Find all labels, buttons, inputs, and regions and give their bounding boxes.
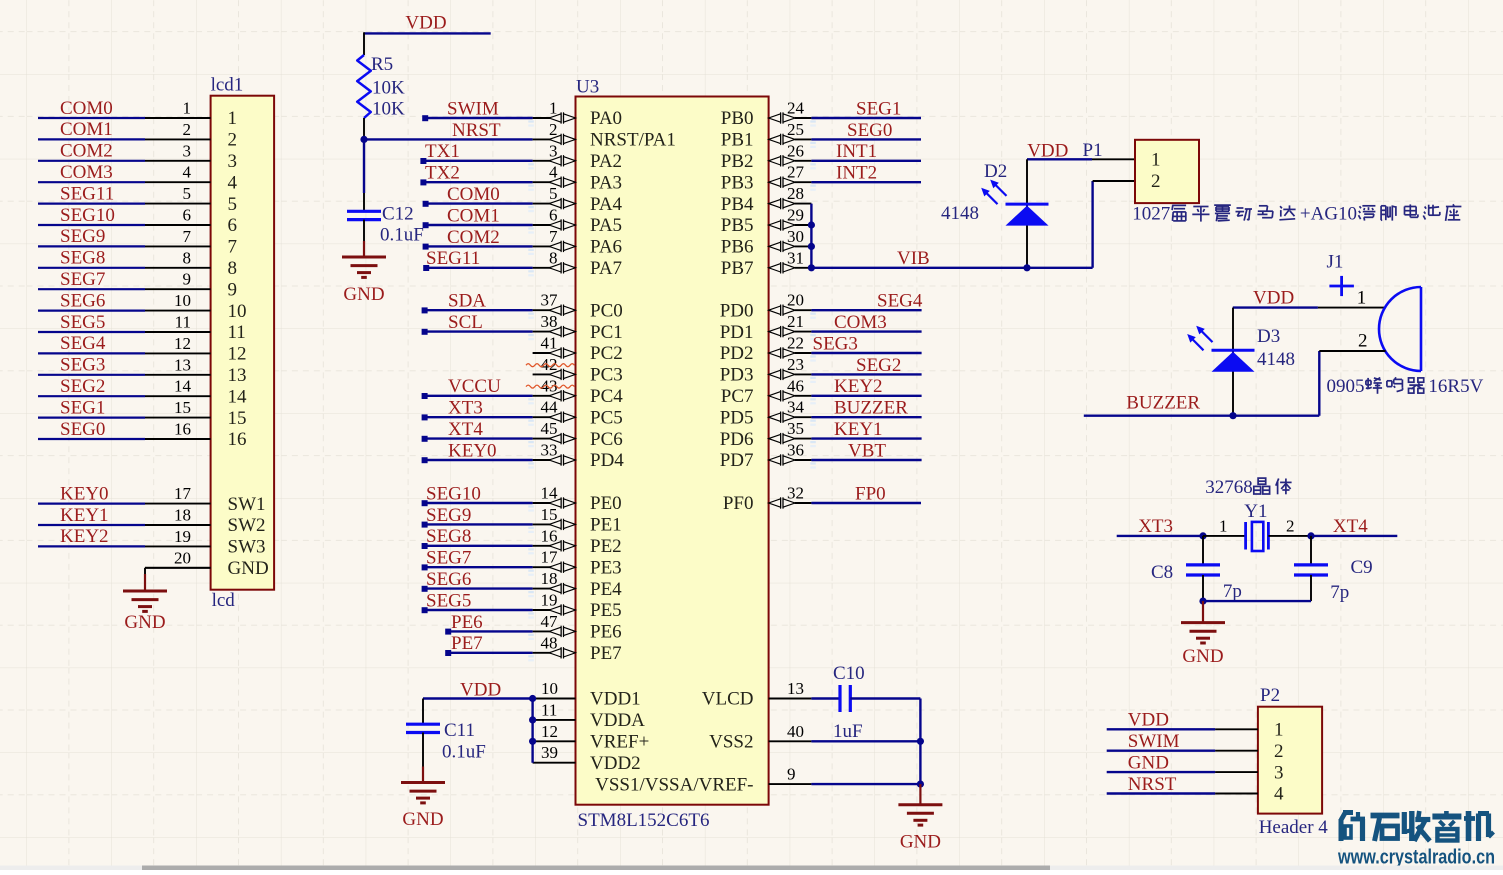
U3 pin 47 (PE6)	[533, 612, 622, 643]
wire net KEY2 to lcd1 pin 19	[38, 545, 145, 547]
junction VSS1 rail	[917, 781, 924, 788]
net label SEG11	[426, 248, 480, 269]
svg-text:PB6: PB6	[721, 237, 754, 258]
svg-text:PB1: PB1	[721, 130, 754, 151]
svg-text:2: 2	[549, 120, 558, 139]
svg-text:INT2: INT2	[836, 163, 877, 184]
net label SWIM at P2	[1128, 731, 1180, 752]
svg-text:0905: 0905	[1327, 376, 1365, 397]
U3 pin 9 (VSS1/VSSA/VREF-)	[595, 765, 811, 796]
P2 pin 1	[1215, 720, 1283, 741]
browser scrollbar thumb	[142, 866, 1050, 871]
svg-text:PD4: PD4	[590, 450, 624, 471]
lcd1 pin 16 (16)	[145, 420, 247, 451]
net label INT1	[836, 141, 877, 162]
svg-text:PA0: PA0	[590, 108, 622, 129]
svg-text:SEG3: SEG3	[60, 355, 105, 376]
svg-text:4148: 4148	[1257, 349, 1295, 370]
svg-text:COM1: COM1	[60, 119, 113, 140]
svg-text:8: 8	[549, 248, 558, 267]
svg-text:SEG7: SEG7	[426, 548, 471, 569]
wire net COM2 to U3 pin 7	[423, 244, 534, 255]
svg-text:SEG4: SEG4	[877, 291, 923, 312]
svg-text:13: 13	[787, 679, 804, 698]
svg-text:4: 4	[549, 163, 558, 182]
svg-text:14: 14	[228, 386, 248, 407]
svg-text:10K: 10K	[372, 78, 405, 99]
svg-text:COM1: COM1	[447, 205, 500, 226]
U3 pin 41 (PC2)	[533, 334, 623, 365]
svg-text:1: 1	[1151, 150, 1161, 171]
net label COM3	[834, 312, 887, 333]
svg-text:SEG0: SEG0	[60, 419, 105, 440]
wire net SEG9 to lcd1 pin 7	[38, 245, 145, 247]
wire net SEG6 to lcd1 pin 10	[38, 310, 145, 312]
svg-text:PF0: PF0	[723, 493, 754, 514]
wire net SEG10 to U3 pin 14	[422, 500, 534, 511]
svg-text:lcd: lcd	[212, 590, 236, 611]
svg-text:COM0: COM0	[60, 98, 113, 119]
ground symbol GND at lcd1	[123, 574, 167, 633]
svg-text:14: 14	[541, 484, 559, 503]
svg-text:21: 21	[787, 312, 804, 331]
svg-text:18: 18	[541, 569, 558, 588]
net label COM2	[447, 227, 500, 248]
U3 pin 3 (PA2)	[533, 141, 622, 172]
svg-text:SEG2: SEG2	[856, 355, 901, 376]
net label XT3	[448, 398, 483, 419]
net label SEG0	[60, 419, 105, 440]
U3 pin 46 (PC7)	[721, 376, 812, 407]
wire net KEY1 from U3 pin 35	[810, 439, 921, 448]
wire net VDD to P2 pin 1	[1107, 728, 1215, 730]
svg-text:VBT: VBT	[848, 440, 886, 461]
svg-text:SWIM: SWIM	[1128, 731, 1180, 752]
svg-text:10: 10	[541, 679, 558, 698]
svg-text:33: 33	[541, 441, 558, 460]
power net VDD label at U3 supply	[460, 679, 501, 700]
wire net VBT from U3 pin 36	[810, 460, 921, 469]
wire net TX2 to U3 pin 4	[420, 179, 533, 190]
svg-text:PB4: PB4	[721, 194, 754, 215]
svg-text:GND: GND	[900, 832, 941, 853]
svg-text:19: 19	[174, 527, 191, 546]
U3 pin 40 (VSS2)	[709, 722, 811, 753]
wire net SEG0 to lcd1 pin 16	[38, 438, 145, 440]
ground symbol GND below C12	[342, 241, 386, 305]
capacitor C8 7p	[1151, 536, 1242, 602]
net label SEG4	[60, 333, 106, 354]
svg-text:PD2: PD2	[720, 343, 754, 364]
svg-text:PC2: PC2	[590, 343, 623, 364]
junction node at R5/C12/NRST	[360, 136, 367, 143]
wire net INT1 from U3 pin 26	[810, 161, 921, 170]
net label XT4	[448, 419, 483, 440]
wire VSS2 to GND rail	[811, 740, 920, 742]
net label SEG4	[877, 291, 923, 312]
svg-text:10: 10	[228, 301, 247, 322]
lcd1 pin 7 (7)	[145, 227, 237, 258]
P2 pin 3	[1215, 762, 1283, 783]
svg-text:6: 6	[549, 206, 558, 225]
lcd1 pin 9 (9)	[145, 270, 237, 301]
svg-text:PA6: PA6	[590, 237, 622, 258]
svg-text:22: 22	[787, 334, 804, 353]
svg-text:NRST/PA1: NRST/PA1	[590, 130, 676, 151]
svg-text:PE0: PE0	[590, 493, 622, 514]
svg-text:C12: C12	[382, 204, 414, 225]
U3 pin 27 (PB3)	[721, 163, 812, 194]
value label 32768 crystal	[1205, 477, 1291, 498]
svg-text:NRST: NRST	[452, 120, 501, 141]
lcd1 pin 11 (11)	[145, 313, 246, 344]
wire C11 to ground	[422, 733, 424, 767]
svg-text:SEG1: SEG1	[856, 98, 901, 119]
svg-text:INT1: INT1	[836, 141, 877, 162]
svg-text:PD3: PD3	[720, 365, 754, 386]
svg-text:KEY0: KEY0	[448, 440, 497, 461]
svg-text:10K: 10K	[372, 99, 405, 120]
value label 1027 vibration motor + AG10 battery holder	[1132, 204, 1461, 225]
net label SEG3	[60, 355, 105, 376]
junction VREF+	[529, 738, 536, 745]
svg-text:2: 2	[183, 120, 192, 139]
P2 pin 2	[1215, 741, 1283, 762]
svg-text:PB7: PB7	[721, 258, 754, 279]
svg-text:9: 9	[228, 279, 238, 300]
wire net SEG11 to lcd1 pin 5	[38, 203, 145, 205]
svg-text:VREF+: VREF+	[590, 732, 649, 753]
svg-text:PC0: PC0	[590, 300, 623, 321]
lcd1 pin 8 (8)	[145, 248, 237, 279]
svg-text:KEY1: KEY1	[60, 505, 109, 526]
svg-text:3: 3	[228, 151, 238, 172]
net label XT4	[1333, 516, 1368, 537]
net label FP0	[855, 483, 886, 504]
lcd1 pin 2 (2)	[145, 120, 237, 151]
net label SDA	[448, 291, 486, 312]
U3 pin 1 (PA0)	[533, 99, 622, 130]
svg-text:SEG8: SEG8	[426, 526, 471, 547]
wire net COM2 to lcd1 pin 3	[38, 160, 145, 162]
wire net SDA to U3 pin 37	[422, 307, 534, 318]
svg-text:XT3: XT3	[1138, 516, 1173, 537]
U3 pin 28 (PB4)	[721, 184, 812, 215]
net label COM1	[60, 119, 113, 140]
net label COM3	[60, 162, 113, 183]
svg-text:PE6: PE6	[590, 622, 622, 643]
svg-text:PE3: PE3	[590, 557, 622, 578]
svg-text:14: 14	[174, 377, 192, 396]
wire net SEG3 to lcd1 pin 13	[38, 374, 145, 376]
svg-text:XT3: XT3	[448, 398, 483, 419]
compile error squiggle pin 43	[526, 385, 574, 388]
wire NRST net to U3 pin 2	[364, 138, 533, 140]
svg-text:16R5V: 16R5V	[1428, 376, 1483, 397]
svg-text:PA4: PA4	[590, 194, 623, 215]
svg-text:12: 12	[228, 344, 247, 365]
net label NRST	[452, 120, 501, 141]
U3 pin 19 (PE5)	[533, 591, 622, 622]
svg-text:C11: C11	[444, 720, 475, 741]
wire net GND to P2 pin 3	[1107, 771, 1215, 773]
svg-text:SEG4: SEG4	[60, 333, 106, 354]
wire net SEG7 to lcd1 pin 9	[38, 288, 145, 290]
wire Y1 pin 2 to XT4	[1268, 517, 1311, 536]
net label INT2	[836, 163, 877, 184]
lcd1 pin 15 (15)	[145, 398, 247, 429]
svg-text:SW3: SW3	[228, 537, 266, 558]
svg-text:6: 6	[183, 206, 192, 225]
svg-text:2: 2	[1358, 331, 1368, 352]
svg-text:VDDA: VDDA	[590, 710, 645, 731]
svg-text:GND: GND	[343, 284, 384, 305]
wire net COM3 to lcd1 pin 4	[38, 181, 145, 183]
wire net SEG11 to U3 pin 8	[423, 265, 534, 276]
wire net NRST to P2 pin 4	[1107, 792, 1215, 794]
svg-text:SEG10: SEG10	[60, 205, 115, 226]
U3 pin 43 (PC4)	[533, 376, 624, 407]
svg-text:15: 15	[228, 408, 247, 429]
svg-text:5: 5	[228, 194, 238, 215]
svg-text:KEY2: KEY2	[60, 526, 109, 547]
U3 pin 37 (PC0)	[533, 291, 623, 322]
net label KEY0	[60, 483, 109, 504]
wire VDD to U3 supply pins	[423, 699, 533, 763]
net label TX1	[425, 141, 460, 162]
svg-text:27: 27	[787, 163, 805, 182]
svg-text:COM2: COM2	[447, 227, 500, 248]
svg-text:25: 25	[787, 120, 804, 139]
svg-text:PE1: PE1	[590, 515, 622, 536]
U3 pin 26 (PB2)	[721, 141, 812, 172]
svg-text:PD0: PD0	[720, 300, 754, 321]
U3 pin 21 (PD1)	[720, 312, 812, 343]
net label SEG9	[60, 226, 105, 247]
svg-text:23: 23	[787, 355, 804, 374]
net label PE7	[451, 633, 483, 654]
wire VDD down through diode D2	[1026, 159, 1028, 267]
svg-text:10: 10	[174, 291, 191, 310]
J1 pin 2 number	[1358, 331, 1368, 352]
polarity plus mark at J1	[1329, 276, 1354, 296]
net label SEG3	[813, 333, 858, 354]
wire net COM3 from U3 pin 21	[810, 332, 921, 341]
svg-text:32: 32	[787, 484, 804, 503]
net label COM2	[60, 141, 113, 162]
wire BUZZER net	[1084, 351, 1386, 416]
lcd1 pin 6 (6)	[145, 206, 237, 237]
net label KEY1	[834, 419, 883, 440]
lcd1 pin 20 (GND)	[145, 548, 269, 579]
svg-text:12: 12	[174, 334, 191, 353]
svg-text:13: 13	[228, 365, 247, 386]
svg-text:PC7: PC7	[721, 386, 754, 407]
svg-text:SEG5: SEG5	[60, 312, 105, 333]
U3 pin 32 (PF0)	[723, 484, 812, 515]
resistor R5	[357, 54, 405, 120]
lcd1 pin 13 (13)	[145, 355, 247, 386]
wire net SEG2 from U3 pin 23	[810, 374, 921, 383]
svg-text:39: 39	[541, 743, 558, 762]
wire net SEG1 to lcd1 pin 15	[38, 417, 145, 419]
svg-text:9: 9	[183, 270, 192, 289]
wire VDD to J1 pin 1	[1233, 306, 1385, 308]
svg-text:3: 3	[549, 141, 558, 160]
wire net VIB from PB7 to D2/P1	[811, 267, 1092, 269]
wire net SWIM to P2 pin 2	[1107, 750, 1215, 752]
svg-text:KEY0: KEY0	[60, 483, 109, 504]
compile error squiggle pin 42	[526, 364, 574, 367]
svg-text:GND: GND	[402, 809, 443, 830]
svg-text:C10: C10	[833, 663, 865, 684]
svg-text:34: 34	[787, 398, 805, 417]
svg-text:D2: D2	[984, 161, 1007, 182]
svg-text:COM0: COM0	[447, 184, 500, 205]
svg-text:SEG2: SEG2	[60, 376, 105, 397]
svg-text:PE6: PE6	[451, 612, 483, 633]
svg-text:2: 2	[1274, 741, 1284, 762]
wire net FP0 from U3 pin 32	[811, 502, 921, 504]
svg-text:1: 1	[183, 99, 192, 118]
U3 pin 45 (PC6)	[533, 419, 623, 450]
svg-text:PA7: PA7	[590, 258, 622, 279]
wire net INT2 from U3 pin 27	[810, 182, 921, 191]
svg-text:SW1: SW1	[228, 494, 266, 515]
wire net SEG9 to U3 pin 15	[422, 522, 534, 533]
lcd1 pin 17 (SW1)	[145, 484, 266, 515]
svg-text:Y1: Y1	[1244, 501, 1267, 522]
power net VDD label at J1	[1253, 287, 1294, 308]
svg-text:PD6: PD6	[720, 429, 754, 450]
wire net PE7 to U3 pin 48	[445, 650, 534, 661]
svg-text:VDD1: VDD1	[590, 689, 641, 710]
svg-text:29: 29	[787, 206, 804, 225]
U3 pin 36 (PD7)	[720, 441, 812, 472]
net label BUZZER	[1126, 393, 1200, 414]
U3 pin 30 (PB6)	[721, 227, 812, 258]
net label SEG2	[60, 376, 105, 397]
wire lcd1 pin 20 to ground	[145, 568, 211, 574]
U3 pin 29 (PB5)	[721, 206, 812, 237]
capacitor C12 0.1uF	[347, 204, 424, 246]
svg-text:SEG8: SEG8	[60, 248, 105, 269]
crystal Y1 designator	[1244, 501, 1267, 522]
watermark logo crystalradio	[1341, 811, 1494, 841]
svg-text:PB0: PB0	[721, 108, 754, 129]
net label KEY2	[60, 526, 109, 547]
junction PB5	[808, 221, 815, 228]
wire net KEY0 to U3 pin 33	[422, 457, 534, 468]
net label SEG7	[426, 548, 471, 569]
wire C10 to GND rail	[850, 699, 920, 785]
svg-text:46: 46	[787, 376, 804, 395]
svg-text:PE4: PE4	[590, 579, 622, 600]
wire XT3 to Y1 pin 1	[1203, 517, 1246, 536]
svg-text:7: 7	[228, 237, 238, 258]
wire net KEY2 from U3 pin 46	[810, 396, 921, 405]
net label VCCU	[448, 376, 501, 397]
U3 pin 10 (VDD1)	[533, 679, 641, 710]
net label BUZZER	[834, 398, 908, 419]
svg-text:R5: R5	[371, 54, 393, 75]
svg-text:BUZZER: BUZZER	[834, 398, 908, 419]
ground symbol GND at U3 supply rail	[898, 784, 942, 852]
svg-text:4: 4	[228, 172, 238, 193]
net label NRST at P2	[1128, 774, 1177, 795]
svg-text:7: 7	[549, 227, 558, 246]
svg-text:GND: GND	[1182, 646, 1223, 667]
svg-text:40: 40	[787, 722, 804, 741]
svg-text:7p: 7p	[1330, 582, 1349, 603]
svg-text:PD5: PD5	[720, 407, 754, 428]
U3 pin 22 (PD2)	[720, 334, 812, 365]
net label COM0	[447, 184, 500, 205]
U3 pin 24 (PB0)	[721, 99, 812, 130]
wire net XT3 to U3 pin 44	[422, 414, 534, 425]
svg-text:1: 1	[549, 99, 558, 118]
svg-text:1: 1	[1219, 517, 1228, 536]
svg-text:www.crystalradio.cn: www.crystalradio.cn	[1337, 847, 1495, 869]
svg-text:1uF: 1uF	[833, 721, 863, 742]
svg-text:SEG11: SEG11	[426, 248, 480, 269]
svg-text:PC4: PC4	[590, 386, 623, 407]
svg-text:J1: J1	[1327, 251, 1344, 272]
U3 pin 4 (PA3)	[533, 163, 622, 194]
svg-text:1027: 1027	[1132, 204, 1170, 225]
U3 pin 5 (PA4)	[533, 184, 623, 215]
net label SEG2	[856, 355, 901, 376]
svg-text:2: 2	[1286, 517, 1295, 536]
svg-text:PE7: PE7	[451, 633, 483, 654]
wire D3 anode down to BUZZER net	[1232, 308, 1234, 416]
wire VSS1 to GND rail	[811, 783, 920, 785]
lcd1 pin 12 (12)	[145, 334, 247, 365]
U3 pin 6 (PA5)	[533, 206, 622, 237]
svg-text:TX2: TX2	[425, 163, 460, 184]
svg-text:SEG0: SEG0	[847, 120, 892, 141]
svg-text:SEG3: SEG3	[813, 333, 858, 354]
svg-text:7: 7	[183, 227, 192, 246]
svg-text:0.1uF: 0.1uF	[380, 225, 424, 246]
U3 pin 17 (PE3)	[533, 548, 622, 579]
svg-text:+AG10: +AG10	[1300, 204, 1357, 225]
U3 pin 44 (PC5)	[533, 398, 623, 429]
svg-text:PB5: PB5	[721, 215, 754, 236]
svg-text:30: 30	[787, 227, 804, 246]
lcd1 pin 5 (5)	[145, 184, 237, 215]
junction BUZZER at D3	[1229, 412, 1236, 419]
svg-text:COM3: COM3	[60, 162, 113, 183]
junction VDD1	[529, 695, 536, 702]
U3 pin 42 (PC3)	[533, 355, 623, 386]
junction XT3	[1199, 532, 1206, 539]
wire VDD horizontal at top	[364, 32, 491, 55]
net label SEG10	[60, 205, 115, 226]
svg-text:P1: P1	[1083, 140, 1103, 161]
svg-text:TX1: TX1	[425, 141, 460, 162]
svg-text:VDD: VDD	[460, 679, 501, 700]
svg-text:SEG7: SEG7	[60, 269, 105, 290]
svg-text:11: 11	[541, 700, 557, 719]
svg-text:VDD: VDD	[405, 12, 446, 33]
U3 pin 12 (VREF+)	[533, 722, 650, 753]
wire net COM0 to U3 pin 5	[423, 201, 534, 212]
capacitor C9 7p	[1294, 536, 1373, 603]
svg-text:PA3: PA3	[590, 172, 622, 193]
svg-text:FP0: FP0	[855, 483, 886, 504]
U3 pin 18 (PE4)	[533, 569, 623, 600]
